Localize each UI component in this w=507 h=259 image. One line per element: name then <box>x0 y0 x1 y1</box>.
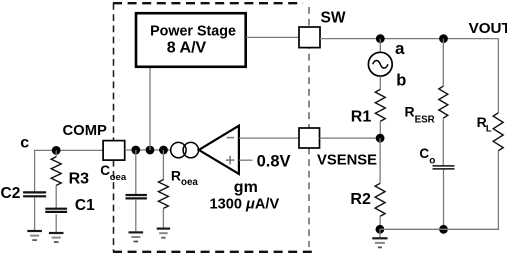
svg-text:R1: R1 <box>351 108 372 125</box>
RESR label <box>405 104 435 126</box>
dashed loop boundary top edge <box>113 2 303 4</box>
svg-text:b: b <box>396 71 406 89</box>
COMP label <box>63 123 108 139</box>
wire rail to RESR <box>442 39 444 87</box>
RL label <box>477 114 492 135</box>
svg-text:Power Stage: Power Stage <box>150 24 236 40</box>
op-amp non-inverting input plus sign <box>226 156 235 165</box>
wire Co to ground rail <box>443 170 445 230</box>
dashed loop boundary bottom edge <box>113 251 317 253</box>
wire Roea branch <box>162 150 164 180</box>
svg-text:SW: SW <box>321 9 346 26</box>
svg-text:c: c <box>20 134 29 151</box>
junction dot Co ground <box>439 225 448 234</box>
wire RL to ground rail <box>380 151 499 230</box>
power stage title <box>150 24 236 40</box>
wire dot to R3 <box>55 150 57 157</box>
dashed loop boundary right edge <box>308 7 310 247</box>
C2 label <box>1 185 21 202</box>
svg-text:C2: C2 <box>1 185 21 202</box>
node b label <box>396 71 406 89</box>
capacitor Co <box>433 166 455 169</box>
svg-text:L: L <box>486 124 492 135</box>
gm label <box>234 179 258 196</box>
wire R2 dot to ground symbol <box>379 229 381 237</box>
svg-text:R: R <box>405 104 415 120</box>
wire from node c to COMP pin <box>35 150 104 191</box>
gm value label 1300 uA/V <box>210 197 280 213</box>
wire SW to VOUT rail <box>320 38 498 40</box>
wire COMP to op-amp output <box>125 149 198 151</box>
VSENSE pin box <box>299 128 320 148</box>
dashed loop boundary left edge <box>113 3 115 252</box>
svg-text:gm: gm <box>234 179 258 196</box>
wire source to R1 <box>379 76 381 90</box>
wire Coea branch <box>135 150 137 195</box>
op-amp inverting input minus sign <box>227 137 234 139</box>
junction dot at output cap branch <box>439 34 448 43</box>
junction dot power stage input <box>146 146 155 155</box>
svg-text:o: o <box>429 155 435 166</box>
wire Coea to ground <box>135 199 137 231</box>
wire C2 to ground <box>34 197 36 230</box>
wire R3 to C1 <box>55 185 57 209</box>
junction dot Coea <box>131 146 140 155</box>
junction dot R2 ground <box>376 225 385 234</box>
Roea label <box>171 168 199 189</box>
ground below C1 <box>49 233 64 242</box>
ground below Coea <box>129 232 144 241</box>
resistor RESR <box>439 86 448 118</box>
op-amp U1 error amplifier <box>199 126 239 174</box>
svg-text:1300 μA/V: 1300 μA/V <box>210 197 280 213</box>
node dot at R3 top <box>52 146 61 155</box>
wire R1 to VSENSE node <box>379 121 381 138</box>
R1 label <box>351 108 372 125</box>
node c label <box>20 134 29 151</box>
resistor Roea <box>158 180 168 209</box>
svg-text:R2: R2 <box>350 191 371 208</box>
VOUT label <box>469 20 507 37</box>
Co label <box>419 146 435 166</box>
node a label <box>395 39 405 58</box>
gm output circles <box>171 142 199 157</box>
wire VSENSE to divider <box>320 137 381 139</box>
wire rail to injection source <box>379 39 381 53</box>
0.8V reference label <box>257 153 291 171</box>
injection source ac symbol <box>368 52 392 76</box>
svg-text:COMP: COMP <box>63 123 108 139</box>
wire power stage to SW <box>246 36 300 38</box>
svg-text:oea: oea <box>110 172 127 183</box>
wire R2 to ground rail <box>379 216 381 229</box>
svg-text:oea: oea <box>181 177 198 188</box>
wire VOUT rail to RL <box>497 39 499 113</box>
svg-text:VOUT: VOUT <box>469 20 507 37</box>
power stage gain 8 A/V <box>167 40 207 57</box>
wire inverting input to VSENSE <box>239 137 300 139</box>
wire Roea to ground <box>162 208 164 227</box>
svg-text:a: a <box>395 39 405 58</box>
svg-text:8 A/V: 8 A/V <box>167 40 207 57</box>
junction dot at injection source <box>376 34 385 43</box>
capacitor C2 <box>23 192 46 196</box>
svg-text:C: C <box>419 146 429 161</box>
Coea label <box>100 163 127 183</box>
ground below R2 <box>372 238 387 247</box>
svg-text:VSENSE: VSENSE <box>317 153 377 169</box>
junction dot VSENSE divider <box>376 134 385 143</box>
resistor R1 <box>375 89 385 121</box>
power stage block <box>136 13 246 67</box>
wire divider to R2 <box>379 138 381 183</box>
junction dot Roea <box>159 146 168 155</box>
C1 label <box>75 197 95 214</box>
SW label <box>321 9 346 26</box>
wire power stage to COMP node <box>149 67 151 150</box>
svg-text:0.8V: 0.8V <box>257 153 291 171</box>
ground below Roea <box>157 229 170 238</box>
capacitor C1 <box>45 209 67 212</box>
wire non-inverting input stub <box>239 159 253 161</box>
svg-text:C1: C1 <box>75 197 95 214</box>
wire RESR to Co <box>442 118 444 165</box>
capacitor Coea <box>126 195 147 198</box>
R2 label <box>350 191 371 208</box>
svg-text:ESR: ESR <box>415 114 435 125</box>
VSENSE label <box>317 153 377 169</box>
ground below C2 <box>27 231 42 240</box>
resistor RL <box>493 113 503 151</box>
svg-text:R3: R3 <box>69 171 90 188</box>
resistor R2 <box>375 183 385 216</box>
wire C1 to ground <box>55 214 57 232</box>
R3 label <box>69 171 90 188</box>
COMP pin box <box>103 141 125 161</box>
SW pin box <box>299 27 320 48</box>
svg-text:R: R <box>171 168 181 184</box>
resistor R3 <box>51 157 61 186</box>
